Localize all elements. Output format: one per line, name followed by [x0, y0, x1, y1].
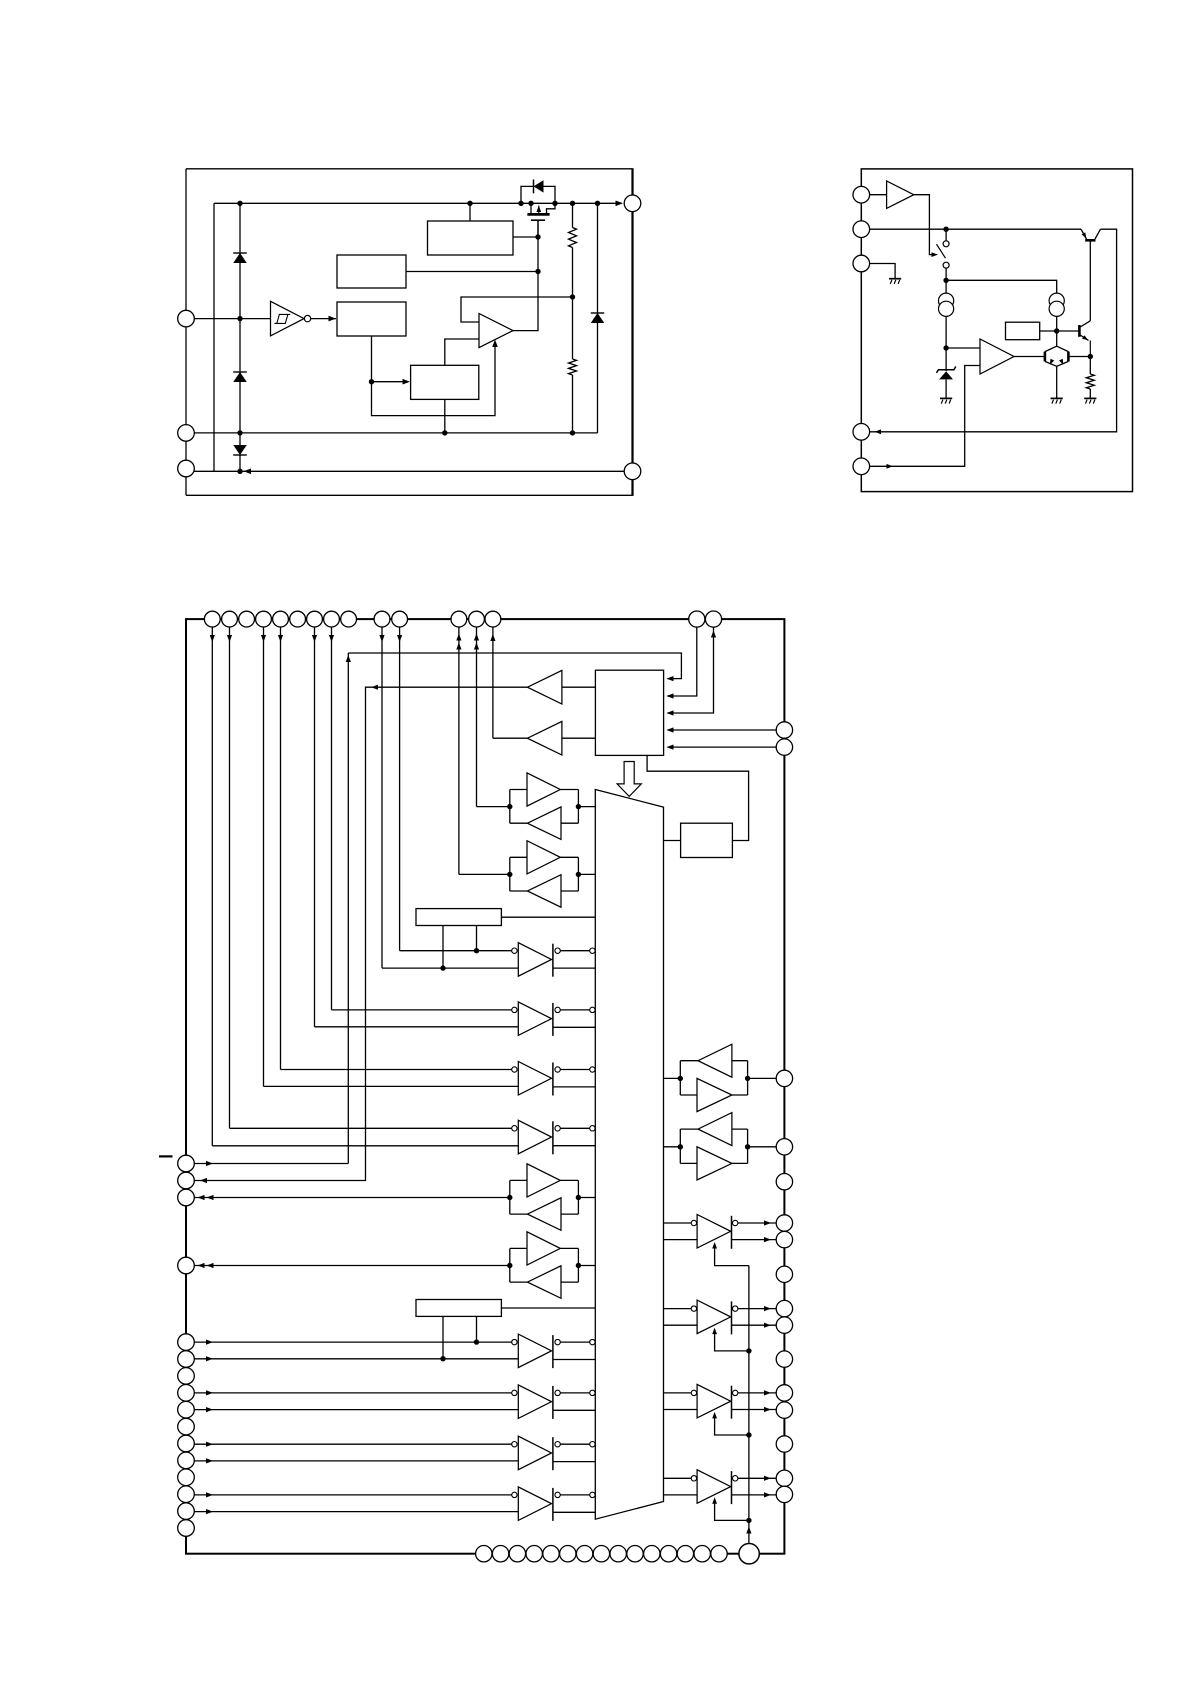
box B (osc)	[337, 255, 406, 288]
wire: enable bus riser	[748, 1266, 750, 1544]
diode D2	[233, 371, 247, 373]
wire: top pin D1 to box B1	[668, 627, 697, 696]
wire: node down and right to opamp enable	[372, 342, 496, 416]
wire: row1 signal feed	[382, 967, 518, 969]
resistor R3	[1089, 357, 1091, 375]
box R1 (latch upper)	[416, 909, 501, 926]
pin IC3 right R7	[776, 1231, 792, 1247]
wire: node to box D	[372, 381, 406, 383]
box B1 (control register)	[595, 670, 663, 755]
pin IC1-FB (left bottom)	[178, 460, 195, 477]
transistor Q3	[1078, 325, 1081, 337]
node rail/divider	[570, 201, 575, 206]
wire: row6 control feed	[194, 1392, 511, 1394]
node gate/boxA	[535, 234, 540, 239]
wire: T12 enable	[715, 1500, 749, 1521]
current source CS2	[1049, 293, 1064, 308]
arrow into pin OUT	[616, 201, 624, 207]
wire: pin3 to ground	[870, 264, 896, 279]
pin IC3 right R1	[776, 722, 792, 738]
op-amp U4	[980, 339, 1014, 374]
op-amp U2	[479, 314, 513, 348]
pin IC3 top A6	[290, 611, 306, 627]
pin IC3 left M12	[178, 1520, 195, 1537]
pin IC2-4	[853, 424, 870, 441]
pin IC3 left M7	[178, 1435, 195, 1452]
wire: hexagon bottom to ground	[1056, 366, 1058, 398]
wire: T11 enable	[715, 1414, 749, 1435]
wire: B1 bottom to B2	[647, 755, 749, 840]
IC1 outline (regulator block)	[186, 168, 633, 170]
wire: Q3 collector up to Q2 base	[1089, 240, 1091, 320]
wire: top pin B2 drop	[399, 627, 401, 951]
tri-state buffer T3	[512, 1067, 517, 1072]
wire: opamp out to diode pair	[1014, 356, 1045, 358]
box R2 (latch lower)	[416, 1300, 501, 1317]
pin IC3 bottom P3	[509, 1546, 525, 1562]
wire: pin L1 line	[194, 1163, 348, 1165]
pin IC3 top A8	[324, 611, 340, 627]
pin IC3 right R13	[776, 1402, 792, 1418]
diode D1	[233, 252, 247, 254]
wire: row4 control feed	[230, 1127, 512, 1129]
wire: R2 to parallelogram	[501, 1307, 595, 1309]
pin IC3 left M10	[178, 1486, 195, 1503]
wire: R1 to parallelogram	[501, 916, 595, 918]
pin IC3 bottom P8	[593, 1546, 609, 1562]
tri-state buffer T1	[512, 948, 517, 953]
pin IC3 bottom P10	[627, 1546, 643, 1562]
hollow arrow (data flow)	[617, 762, 641, 797]
wire: T9 enable	[715, 1245, 749, 1266]
pin IC3 left M4	[178, 1385, 195, 1402]
MOSFET Q1	[527, 213, 549, 216]
wire: R2 stub 1	[442, 1316, 444, 1358]
schmitt trigger inverter U1	[271, 301, 305, 336]
pin IC2-1	[853, 186, 870, 203]
pin IC3 right R14	[776, 1436, 792, 1452]
box C (logic)	[337, 302, 406, 336]
wire: row3 signal feed	[264, 1085, 519, 1087]
wire: right pin R2 to B1	[668, 746, 777, 748]
wire: switch node to CS2	[946, 280, 1057, 293]
pin IC3 left M9	[178, 1469, 195, 1486]
wire: top pin A5 drop	[280, 627, 282, 1070]
ground (zener)	[940, 397, 952, 399]
pin IC3 bottom P12	[660, 1546, 676, 1562]
wire: top pin A4 drop	[263, 627, 265, 1086]
zener diode ZD1	[945, 348, 947, 371]
wire: diode chain x=240	[239, 203, 241, 471]
wire: top pin C1 riser	[458, 627, 460, 874]
pin IC3 right R9	[776, 1300, 792, 1316]
wire: box D up to opamp inv input	[445, 339, 479, 365]
ground (hexagon)	[1051, 397, 1063, 399]
pin IC3 left M8	[178, 1452, 195, 1469]
pin IC3 right R11	[776, 1351, 792, 1367]
diode D3	[233, 454, 247, 456]
node rail/diode left	[518, 201, 523, 206]
wire: U6 out to pin C3	[493, 737, 528, 739]
pin IC2-3	[853, 255, 870, 272]
wire: row8 signal feed	[194, 1511, 518, 1513]
diode pair (hexagon) DP1	[1044, 352, 1047, 362]
wire: top pin B1 drop	[381, 627, 383, 968]
wire arrows pin L4	[198, 1263, 205, 1268]
box B2 (decoder)	[681, 823, 733, 857]
wire: B2 to parallelogram	[664, 840, 681, 842]
box E (bias)	[1006, 322, 1040, 340]
wire: top pin A8 drop	[331, 627, 333, 1010]
pin IC3 bottom P14	[694, 1546, 710, 1562]
node boxC out	[369, 379, 374, 384]
buffer U5 (to pin L2)	[527, 670, 562, 704]
pin IC3 top A9	[341, 611, 357, 627]
node emitter/res	[1088, 354, 1093, 359]
box D (reference)	[411, 365, 479, 399]
wire: top pin C3 riser	[492, 627, 494, 738]
pin IC3 right R6	[776, 1215, 792, 1231]
wire: pin1 to schmitt input	[194, 318, 271, 320]
switch SW1	[945, 229, 947, 240]
pin IC1-IN (left)	[178, 310, 195, 327]
wire: hexagon right to emitter node	[1068, 356, 1090, 358]
pin IC2-2	[853, 221, 870, 238]
wire: box B out to gate node	[406, 271, 538, 273]
tri-state buffer T9	[664, 1222, 692, 1224]
node feedback tap	[570, 294, 575, 299]
pin IC3 left M5	[178, 1401, 195, 1418]
wire: box A out to gate node	[513, 236, 538, 238]
bidirectional buffer pair BP1	[509, 790, 511, 824]
node rail/diode right	[552, 201, 557, 206]
pin IC3 right R4	[776, 1139, 792, 1155]
wire: row3 control feed	[281, 1069, 512, 1071]
wire: row6 signal feed	[194, 1409, 518, 1411]
pin IC3 right R12	[776, 1385, 792, 1401]
wire: Q2 collector to pin4	[870, 229, 1117, 432]
wire: R1 stub 2	[476, 926, 478, 951]
node x240/y433	[237, 430, 242, 435]
pin IC3 top C3	[485, 611, 501, 627]
node CS2/base	[1054, 328, 1059, 333]
pin IC3 top A7	[307, 611, 323, 627]
pin IC2-5	[853, 458, 870, 475]
pin IC3 bottom P6	[560, 1546, 576, 1562]
pin IC3 top A3	[239, 611, 255, 627]
wire: rail to box A	[469, 203, 471, 221]
pin IC3 bottom P11	[644, 1546, 660, 1562]
wire: hexagon top to base node	[1056, 331, 1058, 346]
node y433/boxD	[442, 430, 447, 435]
ground (R3)	[1084, 397, 1096, 399]
node x240/y471	[237, 469, 242, 474]
pin IC3 right R16	[776, 1486, 792, 1502]
pin IC3 right R15	[776, 1470, 792, 1486]
node x240/inv input	[237, 316, 242, 321]
wire: inverter out to box C	[311, 318, 336, 320]
bidirectional buffer pair BP4	[509, 1248, 511, 1282]
pin IC3 bottom P7	[576, 1546, 592, 1562]
node rail/D4	[595, 201, 600, 206]
transistor Q2 (upper)	[1085, 239, 1095, 242]
node rail/boxA	[467, 201, 472, 206]
bidirectional buffer pair BP2	[509, 857, 511, 891]
node switch/CS	[943, 278, 948, 283]
pin IC1-VOUT sense (right bottom)	[624, 463, 641, 480]
wire: U5 out to pin L2	[194, 687, 527, 1180]
node y433/divider	[570, 430, 575, 435]
wire: VCC rail y=203	[214, 202, 622, 204]
pin IC3 top B2	[392, 611, 408, 627]
pin IC3 top D1	[689, 611, 705, 627]
wire: row2 signal feed	[315, 1026, 519, 1028]
wire: y=433 GND line	[194, 432, 597, 434]
pin IC3 bottom P5	[543, 1546, 559, 1562]
diode D4	[597, 203, 599, 433]
pin IC3 left L4	[178, 1257, 195, 1274]
pin IC3 left L1	[178, 1155, 195, 1172]
pin IC3 left M2	[178, 1351, 195, 1368]
tri-state buffer T8	[512, 1492, 517, 1497]
wire: row8 control feed	[194, 1494, 511, 1496]
resistor R2 (divider bottom)	[572, 297, 574, 359]
MOSFET Q1 body diode	[521, 186, 534, 203]
wire: top pin D2 to box B1	[668, 627, 714, 713]
pin IC3 bottom P1	[476, 1546, 492, 1562]
wire: row2 control feed	[332, 1009, 512, 1011]
wire: row7 control feed	[194, 1443, 511, 1445]
node gate/boxB	[535, 269, 540, 274]
wire: top pin A7 drop	[314, 627, 316, 1027]
box A (upper control)	[428, 221, 514, 255]
wire arrows pin L3	[198, 1195, 205, 1200]
node CS1/opamp	[943, 345, 948, 350]
tri-state buffer T11	[664, 1392, 692, 1394]
pin IC3 left M11	[178, 1503, 195, 1520]
pin IC3 right R3	[776, 1070, 792, 1086]
pin IC3 left M6	[178, 1418, 195, 1435]
wire: box E to Q3 base	[1040, 330, 1080, 332]
wire: R2 stub 2	[476, 1316, 478, 1342]
wire: right pin R1 to B1	[668, 729, 777, 731]
wire: top pin A2 drop	[229, 627, 231, 1128]
tri-state buffer T6	[512, 1390, 517, 1395]
pin IC3 left L2	[178, 1172, 195, 1189]
node rail/x240	[237, 201, 242, 206]
node pin2/switch	[943, 227, 948, 232]
pin IC3 top C2	[469, 611, 485, 627]
bidirectional buffer pair BP5	[679, 1061, 681, 1095]
node rail/mosfet S	[528, 201, 533, 206]
label dash (minus)	[159, 1155, 173, 1157]
tri-state buffer T5	[512, 1339, 517, 1344]
pin IC3 right R5	[776, 1174, 792, 1190]
wire: to opamp + input	[946, 347, 980, 349]
pin IC1-OUT (right top)	[624, 195, 641, 212]
tri-state buffer T10	[664, 1308, 692, 1310]
IC3 outline (bus interface block)	[186, 619, 784, 1554]
wire: serial line y=653 into B1	[348, 653, 681, 679]
pin IC3 bottom P16 (enable)	[739, 1544, 759, 1564]
bidirectional buffer pair BP6	[679, 1129, 681, 1163]
wire: row4 signal feed	[212, 1145, 518, 1147]
wire: R1 stub 1	[442, 926, 444, 969]
arrow on feedback line	[244, 469, 252, 475]
wire: serial vertical from L1	[347, 653, 349, 1164]
wire: box D down to GND line	[444, 399, 446, 433]
pin IC3 bottom P2	[492, 1546, 508, 1562]
pin IC3 top A5	[273, 611, 289, 627]
pin IC3 right R8	[776, 1266, 792, 1282]
pin IC3 top A4	[256, 611, 272, 627]
IC2 outline (driver block)	[861, 169, 1132, 492]
pin IC3 bottom P9	[610, 1546, 626, 1562]
pin IC1-GND (left lower)	[178, 425, 195, 442]
current source CS1	[945, 280, 947, 293]
wire: opamp out to gate	[513, 220, 538, 331]
pin IC3 bottom P13	[677, 1546, 693, 1562]
wire: row5 control feed	[194, 1341, 511, 1343]
wire: pin5 to opamp - input	[870, 366, 980, 467]
resistor R1 (divider top)	[572, 203, 574, 227]
wire: box C down to node	[371, 336, 373, 382]
wire: row5 signal feed	[194, 1358, 518, 1360]
pin IC3 top A1	[204, 611, 220, 627]
wire: top pin C2 riser	[476, 627, 478, 807]
tri-state buffer T12	[664, 1477, 692, 1479]
pin IC3 top A2	[222, 611, 238, 627]
pin IC3 left L3	[178, 1189, 195, 1206]
wire: left riser x=214	[213, 203, 215, 471]
wire: feedback tap to opamp + input	[461, 297, 573, 322]
buffer U6 (to pin C3)	[527, 721, 562, 755]
tri-state buffer T4	[512, 1126, 517, 1131]
pin IC3 top C1	[451, 611, 467, 627]
tri-state buffer T7	[512, 1442, 517, 1447]
wire: buffer out to switch arm	[914, 195, 933, 255]
wire: top pin A1 drop	[211, 627, 213, 1146]
parallelogram (level shifter array)	[595, 790, 663, 1520]
wire: T10 enable	[715, 1330, 749, 1351]
bidirectional buffer pair BP3	[509, 1180, 511, 1214]
buffer U3	[870, 194, 887, 196]
tri-state buffer T2	[512, 1007, 517, 1012]
ground (pin3)	[889, 278, 901, 280]
wire: row1 control feed	[400, 950, 512, 952]
pin IC3 top B1	[374, 611, 390, 627]
pin IC3 bottom P4	[526, 1546, 542, 1562]
pin IC3 top D2	[705, 611, 721, 627]
wire: row7 signal feed	[194, 1460, 518, 1462]
pin IC3 left M3	[178, 1368, 195, 1385]
pin IC3 left M1	[178, 1334, 195, 1351]
wire: y=471 feedback line	[194, 470, 624, 472]
pin IC3 bottom P15	[711, 1546, 727, 1562]
pin IC3 right R2	[776, 739, 792, 755]
pin IC3 right R10	[776, 1317, 792, 1333]
wire: pin2 line y=229	[870, 228, 1081, 230]
